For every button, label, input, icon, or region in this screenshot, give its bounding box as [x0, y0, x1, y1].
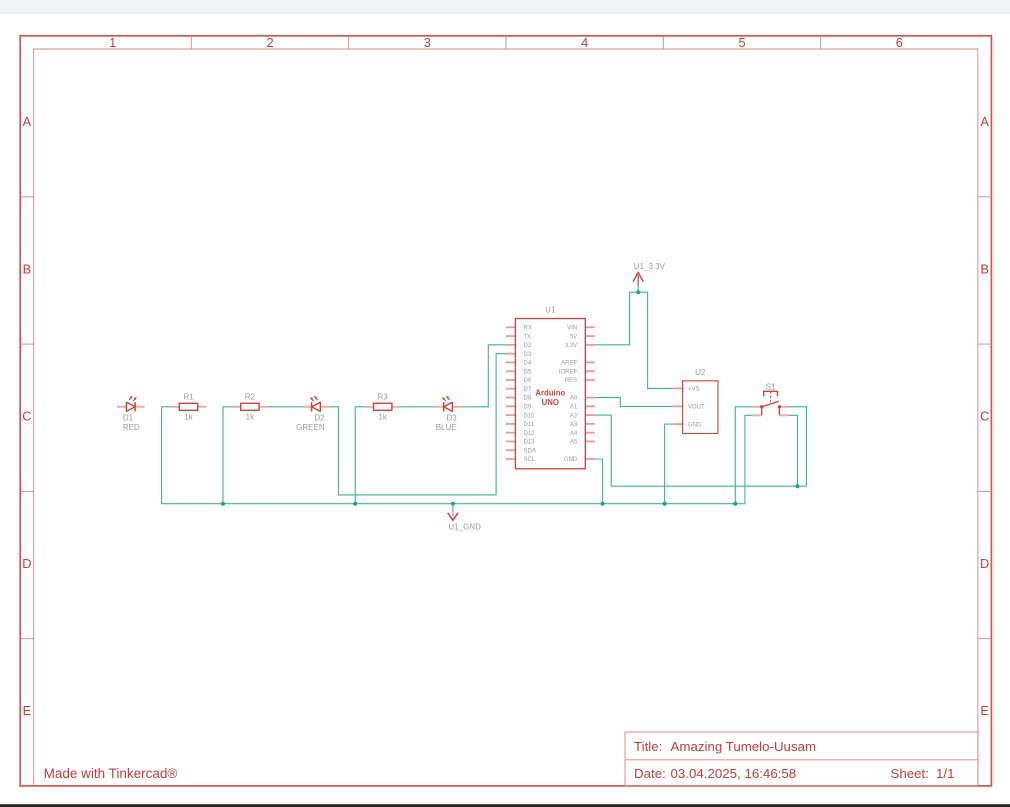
ground symbol U1_GND	[448, 504, 481, 532]
svg-text:Amazing Tumelo-Uusam: Amazing Tumelo-Uusam	[671, 739, 817, 754]
svg-text:D3: D3	[524, 352, 532, 358]
wire R1 left stub	[162, 406, 171, 408]
svg-text:Title:: Title:	[634, 739, 662, 754]
svg-text:A3: A3	[570, 422, 578, 428]
wire D2 anode to U1 pin D3	[330, 354, 506, 495]
svg-text:D6: D6	[524, 378, 532, 384]
svg-text:4: 4	[581, 35, 588, 50]
svg-text:B: B	[980, 261, 989, 276]
junction R3/ground bus	[353, 502, 357, 506]
svg-text:D1: D1	[123, 413, 134, 422]
junction R2/ground bus	[221, 502, 225, 506]
wire R3 left to ground bus	[355, 407, 365, 504]
IC U1 pin leads	[506, 327, 595, 459]
wire U1 A2 to S1 right node	[595, 415, 798, 486]
power symbol U1_3.3V	[633, 262, 665, 285]
LED D3 (BLUE)	[443, 396, 453, 411]
svg-text:Date:: Date:	[634, 766, 666, 781]
svg-text:D3: D3	[446, 413, 457, 422]
svg-text:U1_GND: U1_GND	[448, 523, 481, 532]
wire R2 left to ground bus	[223, 407, 232, 504]
svg-text:GND: GND	[688, 422, 702, 428]
junction ground symbol/bus	[451, 502, 455, 506]
resistor R1 leads	[171, 406, 207, 408]
LED D1 leads	[117, 406, 145, 408]
junction U1 GND/bus	[601, 502, 605, 506]
svg-text:5: 5	[738, 35, 745, 50]
svg-text:Sheet:: Sheet:	[891, 766, 929, 781]
svg-text:TX: TX	[524, 334, 532, 340]
svg-text:U1: U1	[545, 306, 556, 315]
svg-text:IOREF: IOREF	[559, 369, 578, 375]
svg-text:3.3V: 3.3V	[565, 343, 577, 349]
svg-text:A2: A2	[570, 413, 578, 419]
svg-text:D12: D12	[524, 431, 536, 437]
svg-text:R3: R3	[378, 393, 389, 402]
wire U1 GND to ground bus	[595, 459, 603, 504]
svg-text:6: 6	[896, 35, 903, 50]
svg-text:5V: 5V	[570, 334, 577, 340]
svg-text:R1: R1	[183, 393, 194, 402]
junction S1 pin1/bus	[733, 502, 737, 506]
svg-text:RED: RED	[123, 423, 140, 432]
svg-text:D11: D11	[524, 422, 535, 428]
svg-text:D4: D4	[524, 361, 532, 367]
wire S1 pin 1 to ground bus	[735, 407, 752, 504]
pushbutton S1 leads	[752, 407, 789, 416]
svg-text:BLUE: BLUE	[436, 423, 457, 432]
svg-text:RES: RES	[565, 378, 577, 384]
resistor R2 leads	[232, 406, 268, 408]
svg-text:C: C	[980, 409, 989, 424]
svg-text:E: E	[980, 703, 989, 718]
svg-text:C: C	[22, 409, 31, 424]
IC U1 Arduino UNO	[515, 306, 585, 469]
svg-text:A0: A0	[570, 396, 578, 402]
svg-text:VOUT: VOUT	[688, 405, 705, 411]
svg-text:D7: D7	[524, 387, 532, 393]
svg-text:A1: A1	[570, 405, 578, 411]
svg-text:D: D	[22, 556, 31, 571]
junction S1 right node	[796, 484, 800, 488]
svg-text:D: D	[980, 556, 989, 571]
svg-text:GREEN: GREEN	[296, 423, 325, 432]
svg-text:VIN: VIN	[567, 326, 577, 332]
IC U2 pin leads	[673, 388, 682, 424]
svg-text:U2: U2	[695, 368, 706, 377]
wire ground bus (R1 left to S1 pin 2)	[162, 407, 753, 504]
svg-text:1/1: 1/1	[936, 766, 955, 781]
svg-text:SCL: SCL	[524, 457, 536, 463]
LED D3 leads	[434, 406, 462, 408]
wire S1 pin 4 to right node	[789, 415, 798, 486]
LED D2 leads	[302, 406, 330, 408]
svg-text:D13: D13	[524, 440, 536, 446]
svg-text:A5: A5	[570, 440, 578, 446]
wire U2 GND to ground bus	[665, 424, 674, 504]
svg-text:D2: D2	[314, 413, 325, 422]
svg-text:1k: 1k	[246, 413, 255, 422]
resistor R3 leads	[365, 406, 401, 408]
wire R3 right to D3 cathode	[401, 406, 435, 408]
svg-text:A: A	[23, 114, 32, 129]
svg-text:U1_3.3V: U1_3.3V	[634, 262, 666, 271]
svg-text:1: 1	[109, 35, 116, 50]
svg-text:03.04.2025, 16:46:58: 03.04.2025, 16:46:58	[671, 766, 797, 781]
svg-text:D5: D5	[524, 369, 532, 375]
svg-text:1k: 1k	[378, 413, 387, 422]
resistor R2 (1k)	[241, 393, 259, 422]
svg-text:S1: S1	[766, 382, 776, 391]
wire power symbol stub	[637, 285, 639, 292]
svg-text:AREF: AREF	[561, 361, 577, 367]
svg-text:1k: 1k	[184, 413, 193, 422]
svg-text:Arduino: Arduino	[535, 388, 565, 397]
svg-text:D9: D9	[524, 405, 532, 411]
svg-text:D8: D8	[524, 396, 532, 402]
svg-text:D2: D2	[524, 343, 532, 349]
svg-text:Made with Tinkercad®: Made with Tinkercad®	[44, 766, 178, 781]
LED D2 (GREEN)	[310, 396, 320, 411]
svg-text:3: 3	[424, 35, 431, 50]
wire R2 right to D2 cathode	[268, 406, 302, 408]
junction power node	[636, 290, 640, 294]
wire S1 pin 3 to right node	[789, 407, 806, 486]
resistor R3 (1k)	[374, 393, 392, 422]
svg-text:A4: A4	[570, 431, 578, 437]
svg-text:B: B	[23, 261, 32, 276]
svg-text:GND: GND	[564, 457, 578, 463]
svg-text:UNO: UNO	[542, 398, 559, 407]
svg-text:+VS: +VS	[688, 387, 700, 393]
svg-text:E: E	[23, 703, 32, 718]
svg-text:D10: D10	[524, 413, 536, 419]
resistor R1 (1k)	[179, 393, 197, 422]
svg-text:R2: R2	[245, 393, 256, 402]
wire D3 anode to U1 pin D2	[462, 345, 506, 407]
svg-text:2: 2	[266, 35, 273, 50]
wire U1 3.3V to U2 +VS via power node	[595, 292, 673, 388]
svg-text:RX: RX	[524, 326, 532, 332]
svg-text:A: A	[980, 114, 989, 129]
pushbutton S1	[760, 382, 781, 415]
IC U2 sensor	[683, 368, 718, 434]
LED D1 (RED)	[126, 396, 136, 411]
wire U1 A0 to U2 VOUT	[595, 398, 673, 407]
junction U2 GND/bus	[663, 502, 667, 506]
svg-text:SDA: SDA	[524, 448, 536, 454]
